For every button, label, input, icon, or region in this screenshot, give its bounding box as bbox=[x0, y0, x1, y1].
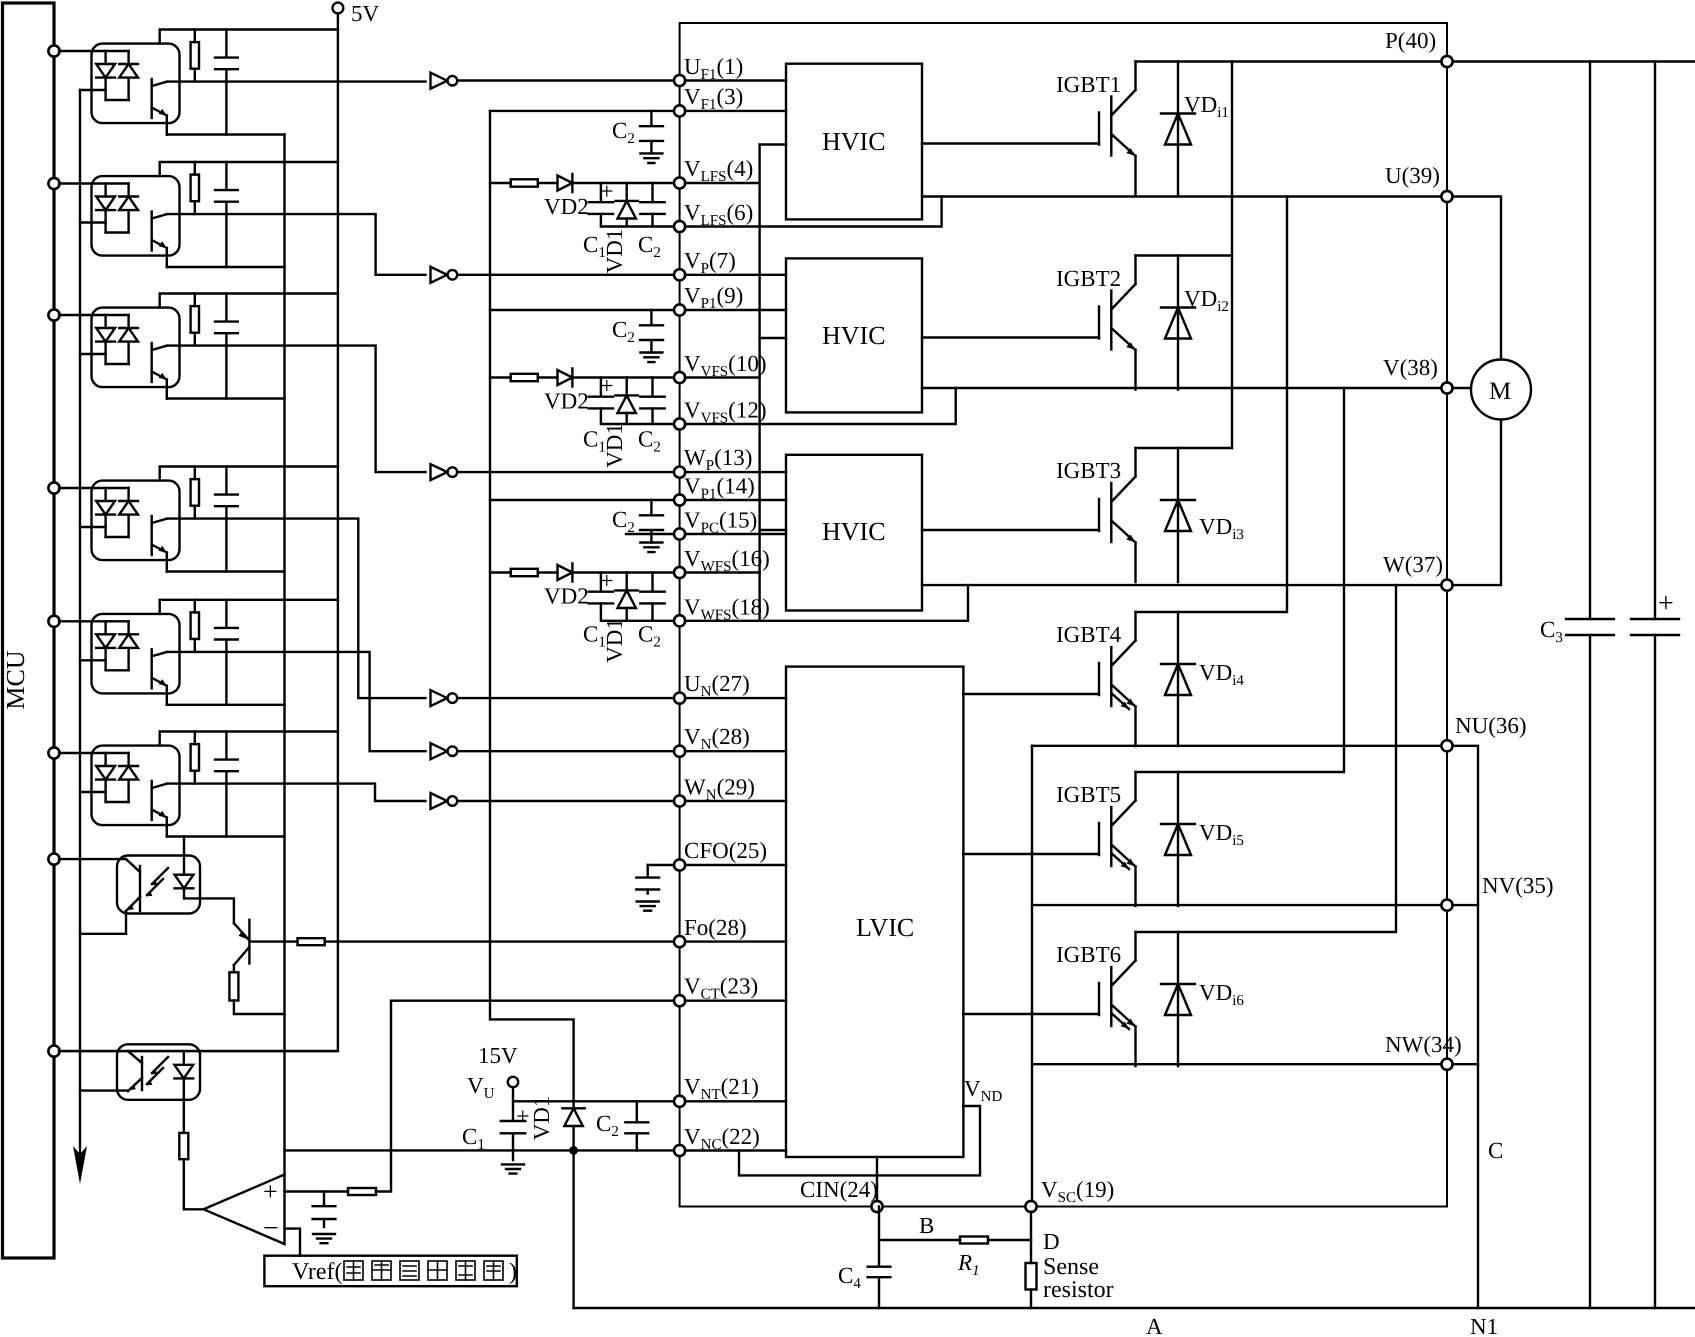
optocoupler U5 bbox=[59, 600, 338, 705]
wire IGBT3 collector rail bbox=[1136, 447, 1233, 449]
MCU pin circle 5 bbox=[48, 616, 59, 627]
wire IGBT5 collector rail and riser to V bbox=[1136, 388, 1345, 772]
module outline box bbox=[680, 23, 1447, 1207]
buffer B2 bbox=[431, 267, 458, 283]
transistor IGBT3 bbox=[1099, 448, 1195, 582]
wire pin V_VFS(12) riser to V phase bbox=[685, 388, 956, 424]
wire DC link rail 1 bbox=[1589, 62, 1591, 620]
svg-text:5V: 5V bbox=[351, 1, 380, 26]
svg-text:VNC(22): VNC(22) bbox=[684, 1124, 760, 1153]
wire bootstrap 1 bottom rail bbox=[601, 214, 674, 227]
wire pin V_F1(3) to HVIC1 bbox=[685, 110, 786, 112]
MCU pin circle 6 bbox=[48, 747, 59, 758]
wire comparator minus input to Vref bbox=[285, 1229, 301, 1256]
CFO capacitor ground bbox=[637, 902, 659, 911]
wire N bottom line bbox=[574, 1307, 1695, 1309]
wire pin V_WFS(16) jog to HVIC3 bbox=[685, 530, 786, 573]
wire pin V_CT(23) to LVIC bbox=[685, 1000, 786, 1002]
motor M bbox=[1471, 360, 1531, 420]
optocoupler U6 bbox=[59, 732, 338, 837]
5V terminal bbox=[333, 3, 344, 14]
wire NU(36) to C rail bbox=[1452, 746, 1478, 1308]
wire opto7 emitter to return bus bbox=[80, 933, 126, 935]
capacitor C2 (V_NT to V_NC) bbox=[625, 1101, 648, 1150]
svg-text:VP1(14): VP1(14) bbox=[684, 474, 755, 503]
zener diode VD1 bbox=[562, 1101, 584, 1150]
svg-text:15V: 15V bbox=[478, 1043, 518, 1068]
pin V_WFS(16) bbox=[674, 567, 685, 578]
wire HVIC1 gate output bbox=[922, 142, 1099, 144]
pin NW(34) bbox=[1441, 1059, 1452, 1070]
buffer B6 bbox=[431, 793, 458, 809]
svg-text:D: D bbox=[1043, 1229, 1060, 1254]
wire V_SC to D node and sense resistor bbox=[1030, 1212, 1032, 1263]
svg-text:VP(7): VP(7) bbox=[684, 248, 736, 277]
wire P bus line bbox=[1136, 60, 1695, 62]
svg-text:+: + bbox=[263, 1177, 278, 1206]
sense resistor R_S bbox=[1026, 1263, 1037, 1290]
svg-text:VPC(15): VPC(15) bbox=[684, 508, 757, 537]
wire W(37) to motor bbox=[1452, 420, 1501, 586]
svg-text:HVIC: HVIC bbox=[822, 127, 886, 156]
resistor R1 bbox=[960, 1237, 988, 1244]
wire opto5 output route bbox=[167, 652, 426, 751]
electrolytic capacitor bbox=[1631, 619, 1679, 635]
wire LVIC gate output to IGBT5 bbox=[963, 853, 1099, 855]
HVIC3 box bbox=[786, 455, 922, 611]
svg-text:+: + bbox=[516, 1104, 530, 1130]
svg-text:MCU: MCU bbox=[1, 650, 30, 709]
resistor on Fo line bbox=[298, 938, 325, 945]
transistor IGBT2 bbox=[1099, 256, 1195, 390]
HVIC2 box bbox=[786, 258, 922, 412]
wire shunt sense vertical bbox=[1031, 746, 1033, 1201]
wire opto3 output route bbox=[167, 346, 426, 473]
wire pin V_P1(9) to HVIC2 bbox=[685, 309, 786, 311]
svg-text:N1: N1 bbox=[1470, 1314, 1498, 1337]
wire opto4 output route bbox=[167, 519, 426, 699]
MCU box bbox=[3, 3, 55, 1258]
Vref Chinese caption glyphs bbox=[344, 1261, 503, 1280]
wire V_U to V_NT(21) row bbox=[513, 1087, 674, 1101]
optocoupler U7 (feedback) bbox=[59, 856, 200, 934]
wire W phase line bbox=[922, 584, 1442, 586]
svg-text:U(39): U(39) bbox=[1385, 163, 1440, 188]
MCU pin circle 4 bbox=[48, 482, 59, 493]
wire pin Fo(28) to LVIC bbox=[685, 940, 786, 942]
wire pin V_VFS(10) jog to HVIC2 bbox=[685, 338, 786, 378]
buffer B4 bbox=[431, 690, 458, 706]
wire opto7 LED cathode to transistor emitter bbox=[184, 889, 234, 923]
wire IGBT2 collector rail bbox=[1136, 254, 1233, 256]
pin V(38) bbox=[1441, 382, 1452, 393]
pin U(39) bbox=[1441, 191, 1452, 202]
wire pin CFO(25) to LVIC bbox=[685, 864, 786, 866]
pin V_VFS(10) bbox=[674, 372, 685, 383]
wire B line with R1 bbox=[879, 1207, 1031, 1241]
svg-text:): ) bbox=[509, 1259, 517, 1285]
wire V_CT to comparator plus input bbox=[285, 1001, 392, 1192]
pin W_P(13) bbox=[674, 467, 685, 478]
wire buffer B3 to pin W_P(13) bbox=[457, 471, 674, 473]
wire V(38) to motor bbox=[1452, 387, 1471, 389]
svg-text:resistor: resistor bbox=[1043, 1277, 1114, 1303]
svg-text:NW(34): NW(34) bbox=[1385, 1032, 1462, 1057]
svg-text:HVIC: HVIC bbox=[822, 321, 886, 350]
pin V_LFS(6) bbox=[674, 221, 685, 232]
LED return bus wire bbox=[79, 90, 81, 1168]
svg-text:A: A bbox=[1146, 1314, 1163, 1337]
wire pin V_PC(15) to HVIC3 bbox=[685, 533, 786, 535]
optocoupler U2 bbox=[59, 162, 338, 267]
wire opto7 LED anode to opto6 emitter row bbox=[183, 837, 185, 856]
svg-text:VSC(19): VSC(19) bbox=[1041, 1177, 1114, 1206]
wire high-side collector riser bbox=[1231, 62, 1233, 449]
svg-text:Vref(: Vref( bbox=[292, 1259, 343, 1285]
wire pin V_LFS(4) jog to HVIC1 bbox=[685, 145, 786, 621]
LED drive resistor bbox=[179, 1133, 188, 1159]
MCU pin circle 3 bbox=[48, 309, 59, 320]
op-amp HVIC1 box bbox=[786, 64, 922, 220]
wire pin V_NT(21) to LVIC bbox=[685, 1100, 786, 1102]
svg-text:IGBT1: IGBT1 bbox=[1056, 72, 1121, 97]
svg-text:IGBT6: IGBT6 bbox=[1056, 942, 1121, 967]
optocoupler U8 (feedback) bbox=[59, 1044, 338, 1100]
decoupling capacitor C2 at V_P1(9) bbox=[612, 310, 663, 362]
wire V_P1(9) row bbox=[490, 309, 674, 311]
wire buffer B5 to pin V_N(28) bbox=[457, 750, 674, 752]
wire NU line bbox=[1032, 745, 1442, 747]
wire pin W_P(13) to HVIC3 bbox=[685, 471, 786, 473]
svg-text:CFO(25): CFO(25) bbox=[684, 838, 767, 863]
pin V_NT(21) bbox=[674, 1096, 685, 1107]
MCU pin circle 1 bbox=[48, 45, 59, 56]
comparator U9 bbox=[204, 1175, 285, 1245]
junction dot at VD1 anode bbox=[569, 1146, 578, 1155]
decoupling capacitor C2 at V_F1(3) bbox=[612, 111, 663, 163]
pin V_CT(23) bbox=[674, 995, 685, 1006]
svg-text:M: M bbox=[1489, 378, 1511, 405]
wire NW line bbox=[1032, 1063, 1442, 1065]
wire buffer B4 to pin U_N(27) bbox=[457, 697, 674, 699]
pin V_SC(19) bbox=[1025, 1201, 1036, 1212]
svg-text:P(40): P(40) bbox=[1385, 28, 1436, 53]
wire V_P1(14) row bbox=[490, 499, 674, 501]
wire buffer B6 to pin W_N(29) bbox=[457, 800, 674, 802]
pin P(40) bbox=[1441, 56, 1452, 67]
svg-text:W(37): W(37) bbox=[1383, 552, 1443, 577]
wire U(39) to motor bbox=[1452, 197, 1501, 360]
svg-text:VNT(21): VNT(21) bbox=[684, 1074, 759, 1103]
svg-text:CIN(24): CIN(24) bbox=[800, 1177, 878, 1202]
pin V_LFS(4) bbox=[674, 177, 685, 188]
wire LVIC gate output to IGBT4 bbox=[963, 693, 1099, 695]
transistor IGBT5 bbox=[1099, 772, 1195, 906]
wire Fo(28) row to transistor base bbox=[252, 940, 675, 942]
wire pin U_N(27) to LVIC bbox=[685, 697, 786, 699]
bootstrap network 2 (R,VD2,C1,VD1,C2) bbox=[490, 369, 674, 468]
15V feed vertical wire bbox=[490, 111, 574, 1101]
wire transistor collector to common bus bbox=[234, 1001, 285, 1015]
optocoupler U1 bbox=[59, 30, 338, 135]
pin V_F1(3) bbox=[674, 105, 685, 116]
wire bootstrap 2 bottom rail bbox=[601, 408, 674, 424]
wire U phase line bbox=[922, 195, 1442, 197]
wire resistor to comparator output bbox=[184, 1159, 204, 1209]
wire pin V_P(7) to HVIC2 bbox=[685, 274, 786, 276]
pin U_N(27) bbox=[674, 693, 685, 704]
comparator input capacitor ground bbox=[313, 1234, 335, 1243]
filter capacitor at comparator input bbox=[313, 1192, 336, 1228]
transistor Q1 (PNP) bbox=[248, 920, 250, 964]
wire V_CT(23) row bbox=[391, 1000, 674, 1002]
wire HVIC3 gate output bbox=[922, 529, 1099, 531]
svg-text:WN(29): WN(29) bbox=[684, 774, 755, 803]
wire IGBT4 collector rail and riser to U bbox=[1136, 197, 1288, 613]
svg-text:IGBT2: IGBT2 bbox=[1056, 266, 1121, 291]
15V terminal V_U bbox=[508, 1077, 518, 1087]
pin CIN(24) bbox=[871, 1201, 882, 1212]
Vref reference box bbox=[264, 1256, 516, 1287]
pin NV(35) bbox=[1441, 900, 1452, 911]
CFO filter capacitor bbox=[636, 865, 659, 894]
svg-text:B: B bbox=[919, 1213, 934, 1238]
wire pin W_N(29) to LVIC bbox=[685, 800, 786, 802]
C1 ground bbox=[502, 1164, 524, 1173]
wire pin V_NC(22) to LVIC bbox=[685, 1149, 786, 1151]
wire opto8 emitter to return bus bbox=[80, 1089, 128, 1091]
capacitor C4 bbox=[868, 1240, 891, 1308]
optocoupler U3 bbox=[59, 294, 338, 399]
MCU pin circle 7 bbox=[48, 854, 59, 865]
optocoupler U4 bbox=[59, 467, 338, 572]
wire VD1 anode to N bottom line bbox=[572, 1150, 574, 1308]
wire opto6 output route bbox=[167, 784, 426, 801]
wire V_F1(3) row bbox=[490, 110, 674, 112]
LVIC box bbox=[786, 667, 963, 1157]
wire opto2 output route bbox=[167, 214, 426, 275]
buffer B1 bbox=[431, 73, 458, 89]
MCU pin circle 8 bbox=[48, 1046, 59, 1057]
return bus arrow bbox=[73, 1146, 87, 1184]
wire pin V_P1(14) to HVIC3 bbox=[685, 499, 786, 501]
wire V_NC(22) row bbox=[285, 1149, 675, 1151]
svg-text:V(38): V(38) bbox=[1383, 355, 1438, 380]
pin U_F1(1) bbox=[674, 75, 685, 86]
5V rail wire bbox=[59, 13, 338, 1051]
wire bootstrap 3 bottom rail bbox=[601, 603, 674, 620]
svg-text:VN(28): VN(28) bbox=[684, 724, 750, 753]
pin V_P1(14) bbox=[674, 494, 685, 505]
pin V_VFS(12) bbox=[674, 418, 685, 429]
pin CFO(25) bbox=[674, 859, 685, 870]
transistor IGBT6 bbox=[1099, 932, 1195, 1066]
pin W_N(29) bbox=[674, 795, 685, 806]
resistor on comparator plus input bbox=[348, 1188, 376, 1195]
svg-text:WP(13): WP(13) bbox=[684, 445, 752, 474]
wire V_NC to V_ND return loop bbox=[739, 1106, 980, 1175]
pin V_WFS(18) bbox=[674, 615, 685, 626]
svg-text:VD1: VD1 bbox=[529, 1096, 554, 1141]
wire NW(34) to C rail bbox=[1452, 1063, 1478, 1065]
transistor collector resistor bbox=[229, 972, 238, 1000]
svg-text:Fo(28): Fo(28) bbox=[684, 915, 747, 940]
pin V_N(28) bbox=[674, 746, 685, 757]
pin NU(36) bbox=[1441, 740, 1452, 751]
wire NV line bbox=[1032, 904, 1442, 906]
svg-text:NU(36): NU(36) bbox=[1455, 713, 1527, 738]
pin Fo(28) bbox=[674, 936, 685, 947]
pin V_NC(22) bbox=[674, 1145, 685, 1156]
pin V_P(7) bbox=[674, 269, 685, 280]
svg-text:−: − bbox=[263, 1213, 279, 1244]
wire opto8 LED cathode to resistor bbox=[183, 1078, 185, 1133]
wire CIN(24) stub to LVIC bbox=[876, 1157, 878, 1201]
wire NV(35) to C rail bbox=[1452, 904, 1478, 906]
buffer B5 bbox=[431, 743, 458, 759]
svg-text:NV(35): NV(35) bbox=[1482, 873, 1554, 898]
wire HVIC2 gate output bbox=[922, 336, 1099, 338]
svg-text:IGBT5: IGBT5 bbox=[1056, 782, 1121, 807]
svg-text:LVIC: LVIC bbox=[856, 913, 914, 942]
wire DC link rail 2 bbox=[1654, 62, 1656, 620]
MCU pin circle 2 bbox=[48, 178, 59, 189]
svg-text:VCT(23): VCT(23) bbox=[684, 974, 758, 1003]
bootstrap network 3 (R,VD2,C1,VD1,C2) bbox=[490, 564, 674, 663]
wire CFO(25) row bbox=[648, 864, 674, 866]
wire pin U_F1(1) to HVIC1 bbox=[685, 79, 786, 81]
svg-text:+: + bbox=[1658, 588, 1674, 619]
transistor IGBT1 bbox=[1099, 62, 1195, 196]
svg-text:C: C bbox=[1488, 1138, 1503, 1163]
wire pin V_WFS(18) riser to W phase bbox=[685, 585, 968, 621]
wire opto1 output to buffer U_P bbox=[167, 81, 674, 82]
wire sense resistor to N line bbox=[1030, 1290, 1032, 1309]
decoupling capacitor C2 at V_P1(14) bbox=[612, 500, 663, 552]
bootstrap network 1 (R,VD2,C1,VD1,C2) bbox=[490, 174, 674, 273]
wire buffer B2 to pin V_P(7) bbox=[457, 274, 674, 276]
capacitor C3 bbox=[1566, 619, 1614, 635]
svg-text:UN(27): UN(27) bbox=[684, 671, 750, 700]
wire LVIC gate output to IGBT6 bbox=[963, 1013, 1099, 1015]
capacitor C1 (15V filter) bbox=[501, 1101, 525, 1160]
pin V_P1(9) bbox=[674, 304, 685, 315]
wire pin V_LFS(6) riser to U phase bbox=[685, 197, 942, 227]
wire pin V_N(28) to LVIC bbox=[685, 750, 786, 752]
svg-text:IGBT3: IGBT3 bbox=[1056, 458, 1121, 483]
emitter common bus wire bbox=[283, 135, 285, 1175]
transistor IGBT4 bbox=[1099, 612, 1195, 746]
wire V_PC(15) row bbox=[626, 533, 674, 535]
svg-text:HVIC: HVIC bbox=[822, 517, 886, 546]
wire V phase line bbox=[922, 387, 1442, 389]
buffer B3 bbox=[431, 464, 458, 480]
pin W(37) bbox=[1441, 580, 1452, 591]
wire IGBT6 collector rail and riser to W bbox=[1136, 585, 1397, 932]
pin V_PC(15) bbox=[674, 528, 685, 539]
svg-text:IGBT4: IGBT4 bbox=[1056, 622, 1122, 647]
